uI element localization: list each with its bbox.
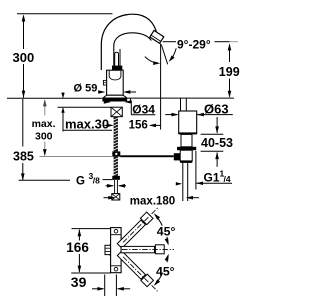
hose lower part (114, 157, 118, 176)
svg-text:max.: max. (32, 118, 56, 130)
max.30 dimension ticks (62, 92, 64, 97)
svg-text:300: 300 (35, 131, 53, 143)
svg-text:156: 156 (129, 120, 148, 132)
svg-text:/8: /8 (93, 175, 100, 185)
G1 1/4 label (196, 182, 232, 184)
max.300 dim (gray) (44, 100, 46, 149)
dimension 300 vertical line (23, 16, 25, 49)
vertical stream line below spout (160, 43, 162, 129)
pop-up rod horizontal (120, 155, 174, 157)
lower spout (117, 250, 162, 295)
aerator at spout tip (150, 30, 164, 43)
lever window in body (109, 71, 121, 80)
40-53 dim (201, 133, 224, 135)
base flare (103, 95, 127, 98)
base plate (111, 228, 122, 273)
junction block with pivot (112, 151, 120, 156)
svg-text:39: 39 (71, 274, 87, 290)
horizontal spout in plan (121, 246, 154, 252)
swivel arcs (155, 215, 162, 226)
left spur on body (103, 80, 106, 85)
385 bottom extension (19, 179, 70, 181)
spout inner edge (114, 33, 152, 66)
drain flange (Ø63) (179, 111, 197, 134)
Ø63 label/arrows (203, 114, 233, 116)
svg-text:300: 300 (13, 50, 35, 65)
locknut (177, 147, 196, 150)
166 extension lines (72, 228, 111, 230)
top extension line (spout height reference) (17, 13, 113, 15)
drain body lower (180, 150, 192, 161)
max.180 arrows (104, 197, 115, 199)
joint dark band (112, 66, 122, 70)
shank with X (111, 107, 122, 117)
svg-text:Ø34: Ø34 (132, 103, 155, 117)
dim 156 (105, 124, 113, 126)
spout outer edge (101, 14, 157, 70)
spout tube (gooseneck) white body (101, 14, 157, 70)
hose nut (112, 176, 120, 180)
9-29 leader (163, 41, 176, 43)
joystick lever rod (115, 52, 119, 67)
dash centerline horizontal (122, 249, 174, 251)
lower nut band (180, 160, 192, 163)
svg-text:45°: 45° (157, 225, 176, 239)
body circle in plan (under plate) (109, 243, 123, 257)
drain body upper (181, 134, 192, 146)
svg-text:166: 166 (66, 240, 89, 255)
svg-text:Ø 59: Ø 59 (74, 83, 98, 95)
svg-text:/4: /4 (224, 174, 231, 184)
neck right line (119, 49, 121, 67)
Ø34 arrows and label (105, 101, 110, 103)
45 deg swivel: upper spout (116, 204, 161, 249)
svg-text:max.180: max.180 (130, 195, 175, 207)
svg-text:40-53: 40-53 (201, 136, 233, 150)
deck bottom line (58, 106, 111, 108)
left swivel arc arrow (145, 57, 158, 64)
drain clevis (174, 153, 180, 160)
hatch pattern overlays for hose: white flecks on dark band (114, 118, 118, 175)
right swivel arc arrow (171, 48, 176, 59)
drain: neck (180, 98, 182, 111)
svg-text:G1: G1 (204, 171, 220, 185)
G3/8 pipe (114, 180, 116, 194)
end nipple (112, 194, 120, 200)
arrow down 300 at deck (22, 91, 26, 98)
body (107, 70, 124, 95)
svg-text:G: G (76, 176, 85, 188)
svg-text:9°-29°: 9°-29° (177, 38, 211, 52)
svg-text:max.30: max.30 (65, 116, 109, 131)
166 dim line (78, 230, 80, 241)
svg-text:199: 199 (219, 65, 240, 79)
svg-text:45°: 45° (156, 264, 175, 278)
dim 199 (229, 45, 231, 63)
Ø59 arrows (100, 91, 105, 93)
dim 385 line: deck to hose end (22, 99, 24, 147)
left tab (105, 245, 111, 254)
G3/8 arrows (106, 185, 113, 187)
39 dim (104, 275, 106, 297)
tailpipe (182, 163, 184, 201)
angled stream line (161, 45, 167, 65)
supply hose (hatched) upper part (114, 117, 118, 152)
deck top line (7, 97, 102, 99)
svg-text:385: 385 (13, 149, 34, 163)
arrow up 300 (22, 14, 26, 21)
svg-text:Ø63: Ø63 (204, 101, 229, 116)
